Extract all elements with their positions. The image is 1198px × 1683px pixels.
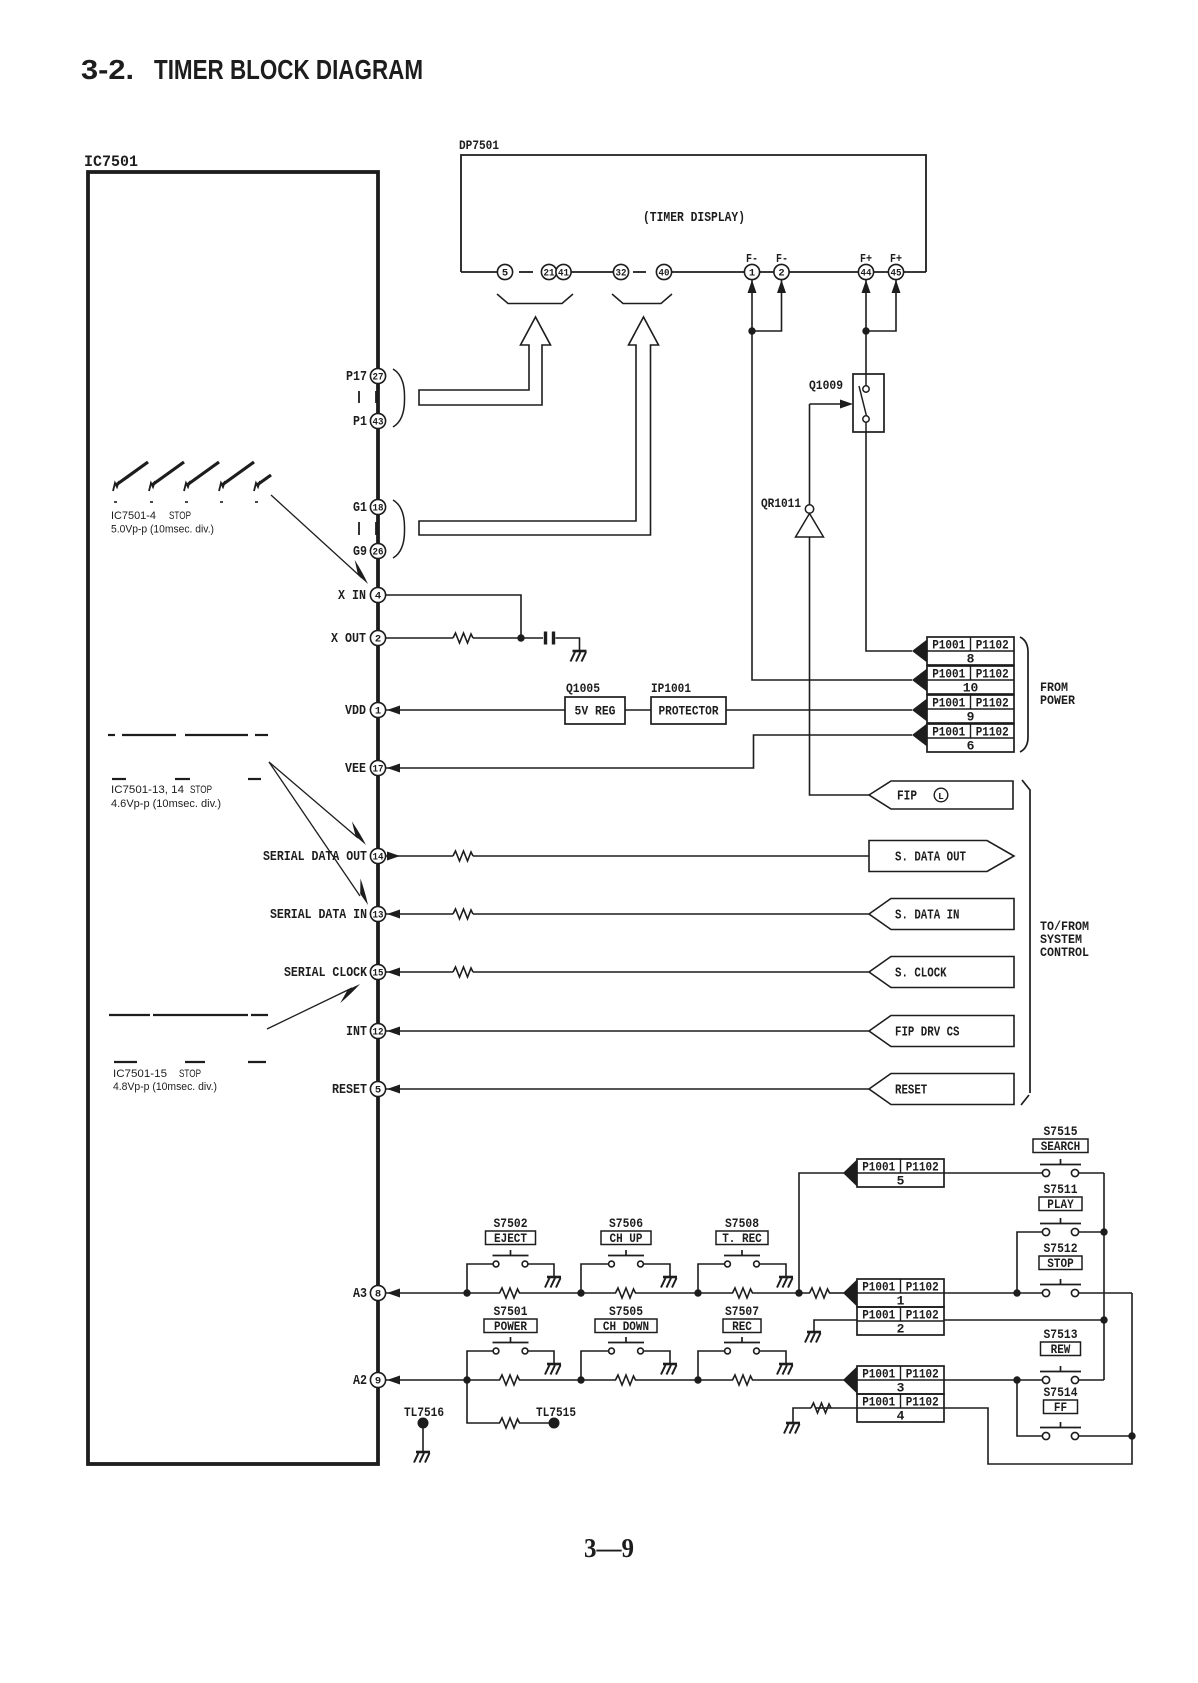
- wire S7508 right leg: [760, 1264, 787, 1277]
- label F+ pin45: [890, 253, 902, 266]
- svg-text:S7505: S7505: [609, 1305, 643, 1319]
- svg-text:TIMER BLOCK DIAGRAM: TIMER BLOCK DIAGRAM: [154, 54, 423, 85]
- wire pin2 to ground: [814, 1320, 857, 1332]
- svg-text:S. DATA IN: S. DATA IN: [895, 909, 960, 924]
- switch S7511 (PLAY): [1040, 1218, 1081, 1236]
- connector P1001/P1102 pin 6: [927, 724, 1014, 754]
- wire X OUT: [386, 637, 453, 639]
- pin A3 label: [353, 1286, 367, 1302]
- pin SERIAL DATA OUT label: [263, 849, 367, 865]
- svg-text:P1001: P1001: [862, 1160, 895, 1174]
- pin VEE label: [345, 761, 366, 777]
- switch S7513 label: [1044, 1328, 1078, 1342]
- wire pin4 to ground resistor: [793, 1408, 857, 1423]
- svg-text:S7512: S7512: [1044, 1242, 1078, 1256]
- node A2-S7507: [694, 1376, 701, 1383]
- page number 3-9: [584, 1533, 634, 1563]
- node A3 tap to pin5: [795, 1289, 802, 1296]
- switch S7506 label: [609, 1217, 643, 1231]
- arrow into pin 12: [387, 1027, 400, 1036]
- wire F- pin1 down to connector pin 10: [748, 280, 913, 680]
- test point TL7515 label: [536, 1405, 576, 1420]
- switch S7506: [608, 1250, 644, 1267]
- svg-text:IC7501-13, 14: IC7501-13, 14: [111, 784, 184, 796]
- arrow into VEE: [387, 764, 400, 773]
- pin 12 of IC7501: [370, 1023, 385, 1038]
- inverter QR1011 label: [761, 496, 801, 511]
- wire SERIAL CLOCK: [386, 971, 869, 973]
- node PLAY left: [1013, 1289, 1020, 1296]
- ground (oscillator): [571, 651, 587, 662]
- pin 5 of DP7501: [497, 264, 512, 279]
- wire pin2 right to bus: [944, 1319, 1104, 1321]
- connector P1001/P1102 pin 3: [857, 1366, 944, 1396]
- pin 15 of IC7501: [370, 964, 385, 979]
- switch S7511 cap PLAY: [1039, 1197, 1082, 1212]
- connector P1001/P1102 pin 1: [857, 1279, 944, 1309]
- wire RESET: [386, 1088, 869, 1090]
- svg-text:TL7515: TL7515: [536, 1405, 576, 1420]
- svg-text:10: 10: [963, 681, 979, 696]
- svg-text:5.0Vp-p (10msec. div.): 5.0Vp-p (10msec. div.): [111, 524, 214, 536]
- ground connector pin 4: [784, 1423, 800, 1434]
- svg-text:FF: FF: [1054, 1401, 1067, 1415]
- inverter QR1011: [796, 505, 824, 537]
- wedge pin 1: [843, 1280, 857, 1307]
- svg-text:X IN: X IN: [338, 588, 366, 604]
- wedge pin 6: [912, 724, 927, 747]
- wire connector5 to SEARCH: [944, 1172, 1043, 1174]
- svg-text:S7513: S7513: [1044, 1328, 1078, 1342]
- bracket TO/FROM SYSTEM CONTROL: [1021, 780, 1030, 1105]
- arrow out of pin 14: [387, 852, 400, 861]
- svg-text:STOP: STOP: [1047, 1257, 1073, 1271]
- pin 26 of IC7501: [370, 543, 385, 558]
- switch Q1009 body: [853, 374, 884, 432]
- label FROM POWER: [1040, 680, 1075, 708]
- svg-text:44: 44: [861, 268, 872, 280]
- switch S7514 label: [1044, 1386, 1078, 1400]
- svg-text:2: 2: [897, 1322, 905, 1337]
- pin 2 of IC7501: [370, 630, 385, 645]
- svg-text:REW: REW: [1051, 1343, 1071, 1357]
- wire row3 to REW: [944, 1379, 1043, 1381]
- switch S7501 cap: [484, 1319, 537, 1334]
- switch S7515 (SEARCH): [1040, 1159, 1081, 1177]
- pin VDD label: [345, 703, 366, 719]
- pin 2 (F-) of DP7501: [774, 264, 789, 279]
- node A3-S7508: [694, 1289, 701, 1296]
- svg-text:1: 1: [749, 268, 755, 280]
- bus wire G1-G9 to display segment arrow: [419, 317, 659, 535]
- wire inverter input from FIP: [810, 537, 870, 795]
- wedge pin 3: [843, 1367, 857, 1394]
- switch S7507 label: [725, 1305, 759, 1319]
- annotation IC7501-15 STOP: [113, 1068, 217, 1093]
- svg-text:STOP: STOP: [169, 510, 191, 522]
- pin 21 of DP7501: [541, 264, 556, 279]
- pin 14 of IC7501: [370, 848, 385, 863]
- resistor serial clock: [453, 967, 473, 977]
- svg-text:G1: G1: [353, 500, 367, 516]
- switch S7507 cap: [723, 1319, 761, 1334]
- wire 5V REG to PROTECTOR: [625, 709, 651, 711]
- pin 32 of DP7501: [613, 264, 628, 279]
- wire S7507 left leg: [698, 1351, 725, 1380]
- test point TL7516 label: [404, 1405, 444, 1420]
- bracket P17-P1: [393, 369, 405, 427]
- svg-text:QR1011: QR1011: [761, 496, 801, 511]
- svg-text:P1102: P1102: [976, 725, 1009, 739]
- wire S7507 right leg: [760, 1351, 787, 1364]
- pin G1/18 label: [353, 500, 367, 516]
- svg-text:P1102: P1102: [906, 1160, 939, 1174]
- brace under pins 5-41: [497, 294, 573, 304]
- resistor RX (osc): [453, 633, 473, 643]
- switch S7501 label: [494, 1305, 528, 1319]
- svg-text:REC: REC: [732, 1320, 752, 1334]
- pin 27 of IC7501: [370, 368, 385, 383]
- wire VEE to connector pin 6: [386, 735, 912, 768]
- resistor serial data out: [453, 851, 473, 861]
- svg-text:SERIAL DATA OUT: SERIAL DATA OUT: [263, 849, 367, 865]
- ellipsis dashes P group: [359, 391, 376, 403]
- svg-text:P17: P17: [346, 369, 367, 385]
- svg-text:T. REC: T. REC: [722, 1232, 762, 1246]
- svg-text:P1102: P1102: [906, 1395, 939, 1409]
- wire Q1009 control: [810, 403, 848, 405]
- svg-text:5: 5: [375, 1085, 381, 1097]
- callout arrow to pin 13: [269, 762, 368, 905]
- connector P1001/P1102 pin 10: [927, 666, 1014, 696]
- switch S7515 cap SEARCH: [1033, 1139, 1088, 1154]
- protector IP1001 label: [651, 681, 691, 696]
- svg-text:4: 4: [375, 591, 381, 603]
- arrow into pin 15: [387, 968, 400, 977]
- node F+ junction: [862, 327, 869, 334]
- resistor A2-2: [616, 1375, 636, 1385]
- display DP7501 body: [461, 155, 926, 272]
- regulator Q1005 5V REG box: [565, 697, 625, 724]
- svg-text:8: 8: [375, 1289, 381, 1301]
- svg-text:PLAY: PLAY: [1047, 1198, 1074, 1212]
- waveform trace IC7501-4: [113, 462, 271, 502]
- connector P1001/P1102 pin 4: [857, 1394, 944, 1424]
- arrow into Q1009: [840, 400, 853, 409]
- svg-text:IC7501-4: IC7501-4: [111, 510, 156, 522]
- svg-text:PROTECTOR: PROTECTOR: [659, 704, 719, 719]
- pin 9 of IC7501: [370, 1372, 385, 1387]
- wire S7501 right leg: [528, 1351, 554, 1364]
- pin 17 of IC7501: [370, 760, 385, 775]
- switch S7507: [724, 1337, 760, 1354]
- wire S7505 right leg: [644, 1351, 671, 1364]
- connector P1001/P1102 pin 2: [857, 1307, 944, 1337]
- pin 44 (F+) of DP7501: [858, 264, 873, 279]
- bracket FROM POWER: [1020, 637, 1028, 752]
- connector P1001/P1102 pin 5: [857, 1159, 944, 1189]
- pin INT label: [346, 1024, 367, 1040]
- svg-text:6: 6: [967, 739, 975, 754]
- wire S7508 left leg: [698, 1264, 725, 1293]
- wire capacitor to ground: [556, 638, 580, 651]
- wire A3 tap up to connector pin 5: [799, 1173, 845, 1293]
- wire VDD to 5V REG: [386, 709, 565, 711]
- svg-text:P1102: P1102: [976, 667, 1009, 681]
- wire X IN to crystal node: [386, 595, 521, 638]
- pin G9/26 label: [353, 544, 367, 560]
- pin A2 label: [353, 1373, 367, 1389]
- test point TL7516: [418, 1418, 429, 1453]
- svg-text:SEARCH: SEARCH: [1041, 1140, 1081, 1154]
- svg-text:L: L: [938, 791, 944, 802]
- annotation IC7501-13 14 STOP: [111, 784, 221, 810]
- svg-text:P1102: P1102: [906, 1367, 939, 1381]
- svg-text:STOP: STOP: [190, 784, 212, 796]
- svg-text:A3: A3: [353, 1286, 367, 1302]
- svg-text:32: 32: [616, 268, 627, 280]
- switch S7506 cap: [601, 1231, 651, 1246]
- svg-text:Q1009: Q1009: [809, 378, 843, 393]
- node A3-S7506: [577, 1289, 584, 1296]
- switch S7512 (STOP): [1040, 1279, 1081, 1297]
- svg-text:FIP: FIP: [897, 790, 917, 805]
- regulator Q1005 label: [566, 681, 600, 696]
- svg-text:41: 41: [558, 268, 569, 280]
- ground S7502: [545, 1277, 561, 1288]
- net flag S.DATA IN: [869, 899, 1014, 930]
- svg-text:X OUT: X OUT: [331, 631, 366, 647]
- wire INT: [386, 1030, 869, 1032]
- IC U7501 body: [88, 172, 378, 1464]
- switch S7505 cap: [595, 1319, 657, 1334]
- svg-text:S. DATA OUT: S. DATA OUT: [895, 851, 966, 866]
- pin 8 of IC7501: [370, 1285, 385, 1300]
- pin 18 of IC7501: [370, 499, 385, 514]
- net flag FIP L: [869, 781, 1013, 809]
- svg-text:15: 15: [373, 968, 384, 980]
- capacitor CX: [546, 632, 554, 645]
- svg-text:FIP DRV CS: FIP DRV CS: [895, 1026, 960, 1041]
- switch S7501: [493, 1337, 529, 1354]
- display DP7501 label: [459, 138, 499, 153]
- node A2-S7501: [463, 1376, 470, 1383]
- node PLAY bus1: [1100, 1228, 1107, 1235]
- switch S7505: [608, 1337, 644, 1354]
- wire S7501 left leg: [467, 1351, 493, 1380]
- svg-text:S7508: S7508: [725, 1217, 759, 1231]
- pin P17/27 label: [346, 369, 367, 385]
- pin RESET label: [332, 1082, 367, 1098]
- wire FF left: [1017, 1380, 1043, 1436]
- switch S7505 label: [609, 1305, 643, 1319]
- svg-text:VDD: VDD: [345, 703, 366, 719]
- svg-text:CONTROL: CONTROL: [1040, 945, 1089, 960]
- svg-text:S7506: S7506: [609, 1217, 643, 1231]
- pin 1 (F-) of DP7501: [744, 264, 759, 279]
- wire inverter out up: [809, 404, 811, 505]
- wire PROTECTOR to connector pin 9: [726, 709, 912, 711]
- svg-text:2: 2: [375, 634, 381, 646]
- wire A3 row: [386, 1292, 845, 1294]
- svg-text:S7515: S7515: [1044, 1125, 1078, 1139]
- svg-text:27: 27: [373, 372, 384, 384]
- svg-text:P1001: P1001: [932, 696, 965, 710]
- wire F+ pin45 join: [866, 280, 901, 331]
- pin 1 of IC7501: [370, 702, 385, 717]
- test point TL7515: [549, 1418, 560, 1429]
- svg-text:21: 21: [544, 268, 555, 280]
- svg-text:P1001: P1001: [862, 1367, 895, 1381]
- display DP7501 caption: [643, 211, 745, 226]
- switch S7515 label: [1044, 1125, 1078, 1139]
- wire PLAY left: [1017, 1232, 1043, 1293]
- svg-text:9: 9: [375, 1376, 381, 1388]
- net flag S.CLOCK: [869, 957, 1014, 988]
- node A2-S7505: [577, 1376, 584, 1383]
- svg-text:S7507: S7507: [725, 1305, 759, 1319]
- pin 41 of DP7501: [556, 264, 571, 279]
- ground S7508: [777, 1277, 793, 1288]
- resistor A2-1: [500, 1375, 520, 1385]
- wire pin4 right loop: [944, 1293, 1132, 1464]
- svg-text:Q1005: Q1005: [566, 681, 600, 696]
- resistor serial data in: [453, 909, 473, 919]
- ground S7505: [661, 1364, 677, 1375]
- label F- pin1: [746, 253, 758, 266]
- svg-text:INT: INT: [346, 1024, 367, 1040]
- svg-text:12: 12: [373, 1027, 384, 1039]
- svg-text:STOP: STOP: [179, 1068, 201, 1080]
- switch S7512 cap STOP: [1039, 1256, 1082, 1271]
- svg-text:45: 45: [891, 268, 902, 280]
- svg-text:RESET: RESET: [332, 1082, 367, 1098]
- switch S7508: [724, 1250, 760, 1267]
- waveform trace IC7501-13/14: [108, 735, 268, 779]
- resistor A3-1: [500, 1288, 520, 1298]
- svg-text:5: 5: [897, 1174, 905, 1189]
- wire S7506 right leg: [644, 1264, 671, 1277]
- switch Q1009 label: [809, 378, 843, 393]
- connector P1001/P1102 pin 9: [927, 695, 1014, 725]
- svg-text:40: 40: [659, 268, 670, 280]
- pin 5 of IC7501: [370, 1081, 385, 1096]
- svg-text:A2: A2: [353, 1373, 367, 1389]
- svg-text:26: 26: [373, 547, 384, 559]
- svg-text:(TIMER DISPLAY): (TIMER DISPLAY): [643, 211, 745, 226]
- IC U7501 label: [84, 153, 138, 171]
- switch S7508 label: [725, 1217, 759, 1231]
- resistor A3-2: [616, 1288, 636, 1298]
- svg-text:2: 2: [778, 268, 784, 280]
- svg-text:P1102: P1102: [976, 696, 1009, 710]
- switch S7514 (FF): [1040, 1422, 1081, 1440]
- ground S7507: [777, 1364, 793, 1375]
- callout arrow to pin 15: [267, 984, 360, 1029]
- annotation IC7501-4 STOP: [111, 510, 214, 536]
- callout arrow to pin 14: [269, 762, 366, 845]
- pin P1/43 label: [353, 414, 367, 430]
- wire F- pin2 join: [752, 280, 786, 331]
- ground connector pin 2: [805, 1332, 821, 1343]
- resistor TL7515: [500, 1418, 520, 1428]
- svg-text:18: 18: [373, 503, 384, 515]
- switch S7502 cap: [486, 1231, 536, 1246]
- wire REW right to bus1: [1079, 1379, 1105, 1381]
- svg-text:S7502: S7502: [494, 1217, 528, 1231]
- waveform trace IC7501-15: [109, 1015, 268, 1062]
- svg-text:IP1001: IP1001: [651, 681, 691, 696]
- node FF bus2: [1128, 1432, 1135, 1439]
- ground TL7516: [414, 1452, 430, 1463]
- wire S7505 left leg: [581, 1351, 609, 1380]
- svg-text:DP7501: DP7501: [459, 138, 499, 153]
- svg-text:3—9: 3—9: [584, 1533, 634, 1563]
- svg-text:3-2.: 3-2.: [81, 54, 134, 85]
- switch S7514 cap FF: [1044, 1400, 1078, 1415]
- arrow into pin A3: [387, 1289, 400, 1298]
- wedge pin 10: [912, 669, 927, 692]
- bracket G1-G9: [393, 500, 405, 558]
- label F- pin2: [776, 253, 788, 266]
- arrow into pin 5: [387, 1085, 400, 1094]
- node bus1 row2: [1100, 1316, 1107, 1323]
- wedge pin 8: [912, 640, 927, 663]
- ground S7506: [661, 1277, 677, 1288]
- wire SERIAL DATA OUT: [386, 855, 869, 857]
- svg-text:IC7501-15: IC7501-15: [113, 1068, 167, 1080]
- callout arrow to X IN: [271, 495, 368, 584]
- svg-text:43: 43: [373, 417, 384, 429]
- svg-text:5V REG: 5V REG: [575, 704, 616, 719]
- switch S7502: [493, 1250, 529, 1267]
- svg-text:P1001: P1001: [862, 1395, 895, 1409]
- svg-text:4.6Vp-p (10msec. div.): 4.6Vp-p (10msec. div.): [111, 798, 221, 810]
- svg-text:POWER: POWER: [494, 1320, 527, 1334]
- brace under pins 32-40: [612, 294, 672, 304]
- wire S7506 left leg: [581, 1264, 609, 1293]
- svg-text:14: 14: [373, 852, 384, 864]
- node A3-S7502: [463, 1289, 470, 1296]
- pin SERIAL DATA IN label: [270, 907, 367, 923]
- wire S7502 right leg: [528, 1264, 554, 1277]
- svg-text:CH DOWN: CH DOWN: [603, 1320, 649, 1334]
- label F+ pin44: [860, 253, 872, 266]
- svg-text:17: 17: [373, 764, 384, 776]
- wire S7502 left leg: [467, 1264, 493, 1293]
- svg-text:IC7501: IC7501: [84, 153, 138, 171]
- wire SERIAL DATA IN: [386, 913, 869, 915]
- bus wire P17-P1 to display segment arrow: [419, 317, 551, 405]
- svg-text:P1102: P1102: [906, 1308, 939, 1322]
- pin SERIAL CLOCK label: [284, 965, 367, 981]
- svg-text:P1001: P1001: [862, 1280, 895, 1294]
- svg-text:P1001: P1001: [932, 667, 965, 681]
- arrow into pin A2: [387, 1376, 400, 1385]
- wire Q1009 to connector pin 8: [866, 432, 912, 651]
- net flag S.DATA OUT: [869, 841, 1014, 872]
- wire SEARCH to bus1: [1079, 1172, 1105, 1174]
- wire PLAY right: [1079, 1231, 1105, 1233]
- arrow into VDD: [387, 706, 400, 715]
- wire STOP right to bus2: [1079, 1292, 1133, 1294]
- pin 40 of DP7501: [656, 264, 671, 279]
- svg-text:EJECT: EJECT: [494, 1232, 527, 1246]
- resistor A3-4: [810, 1288, 830, 1298]
- node FF left: [1013, 1376, 1020, 1383]
- pin X IN label: [338, 588, 366, 604]
- ground S7501: [545, 1364, 561, 1375]
